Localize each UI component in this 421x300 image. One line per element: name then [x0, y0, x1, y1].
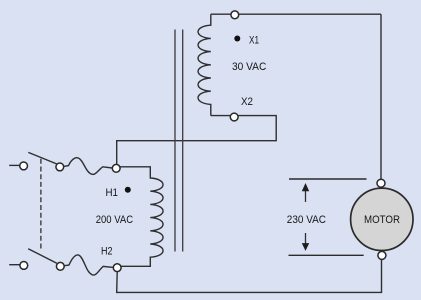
wire: S2 squiggle to H2 terminal — [64, 255, 113, 275]
switch S2 line stub — [9, 264, 20, 266]
svg-text:H2: H2 — [101, 246, 113, 258]
node: H2 terminal — [113, 264, 121, 272]
switch S1 line stub — [9, 164, 20, 166]
wire: right vertical bus to motor top — [380, 14, 382, 179]
dimension line bottom (230 VAC) — [289, 254, 364, 256]
wire: X1 top wire to right bus — [211, 13, 381, 15]
motor M1 body — [351, 188, 413, 250]
svg-text:X2: X2 — [241, 96, 253, 108]
arrow up — [305, 190, 307, 202]
wire: S1 squiggle to H1 terminal — [64, 158, 113, 175]
svg-text:H1: H1 — [106, 187, 119, 199]
switch S1 left contact — [20, 162, 28, 170]
svg-text:30 VAC: 30 VAC — [232, 61, 266, 73]
node: H1 terminal — [112, 164, 120, 172]
node: X2 terminal — [230, 113, 238, 121]
switch linkage (dashed) — [40, 159, 42, 250]
svg-text:MOTOR: MOTOR — [364, 214, 400, 226]
wire: H2 to bottom bus to motor bottom — [117, 256, 382, 292]
node: motor bottom terminal — [378, 251, 386, 259]
svg-text:X1: X1 — [249, 35, 259, 47]
svg-text:200 VAC: 200 VAC — [96, 214, 133, 226]
polarity dot X1 — [234, 36, 240, 42]
svg-text:230 VAC: 230 VAC — [287, 214, 326, 226]
polarity dot H1 — [125, 187, 131, 193]
switch S2 left contact — [20, 262, 28, 270]
wire: X2 lead to H1 node — [117, 116, 277, 166]
switch S2 right contact — [56, 262, 64, 270]
transformer core line right — [182, 30, 184, 252]
arrow down — [305, 233, 307, 245]
node: motor top terminal — [377, 179, 385, 187]
primary winding H1-H2 (200 VAC coil) — [116, 167, 163, 266]
switch S1 blade — [28, 152, 56, 164]
switch S1 right contact — [56, 163, 64, 171]
secondary winding X1-X2 (30 VAC coil) — [198, 14, 211, 115]
node: X1 terminal — [231, 11, 239, 19]
transformer core line left — [174, 30, 176, 252]
dimension line top (230 VAC) — [289, 178, 367, 180]
switch S2 blade — [28, 249, 57, 264]
